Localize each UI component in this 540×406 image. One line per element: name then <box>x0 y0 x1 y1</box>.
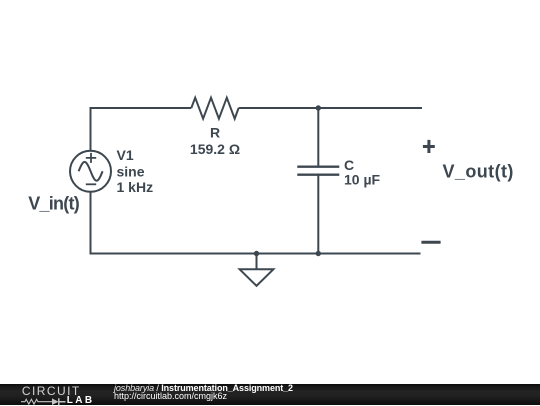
label V1 type sine <box>117 163 145 179</box>
label V_out(t) net name <box>443 161 514 181</box>
output plus terminal mark <box>423 140 435 153</box>
svg-text:V_in(t): V_in(t) <box>28 193 80 213</box>
label V_in(t) net name <box>28 193 80 213</box>
wire top rail left segment (V1 to R) <box>90 107 192 109</box>
wire capacitor C bottom lead <box>317 176 319 254</box>
wire bottom rail <box>90 253 421 255</box>
svg-text:159.2 Ω: 159.2 Ω <box>190 141 240 157</box>
svg-text:1 kHz: 1 kHz <box>117 179 154 195</box>
svg-text:R: R <box>210 124 220 140</box>
output minus terminal mark <box>421 241 440 244</box>
ground symbol triangle <box>240 269 274 286</box>
CircuitLab logo wordmark LAB <box>67 396 95 405</box>
wire top rail right segment (R to output +) <box>239 107 422 109</box>
wire V1 minus terminal to bottom rail <box>90 192 92 254</box>
label R value 159.2 ohm <box>190 141 240 157</box>
label C value 10 uF <box>344 172 381 188</box>
node junction dot top rail / C <box>316 105 321 110</box>
node junction dot ground <box>254 251 259 256</box>
voltage source V1 minus mark <box>86 183 96 185</box>
label R designator <box>210 124 220 140</box>
footer url line <box>114 392 227 401</box>
svg-text:C: C <box>344 157 354 173</box>
ground stub wire <box>256 254 258 270</box>
label V1 designator <box>117 147 134 163</box>
node junction dot bottom rail / C <box>316 251 321 256</box>
label C designator <box>344 157 354 173</box>
wire capacitor C top lead <box>317 108 319 166</box>
capacitor C top plate <box>297 166 339 168</box>
label V1 frequency 1 kHz <box>117 179 154 195</box>
svg-text:V_out(t): V_out(t) <box>443 161 514 181</box>
CircuitLab logo wordmark CIRCUIT <box>22 386 81 397</box>
voltage source V1 circle <box>70 151 111 192</box>
voltage source V1 plus mark <box>86 153 96 163</box>
voltage source V1 sine wave <box>79 162 103 181</box>
capacitor C bottom plate <box>297 174 339 176</box>
wire V1 plus terminal to top rail <box>90 109 92 151</box>
svg-text:sine: sine <box>117 163 145 179</box>
footer attribution bar <box>0 384 540 405</box>
CircuitLab logo symbol resistor-diode <box>21 397 66 406</box>
footer author and title line <box>114 384 293 393</box>
resistor R zigzag body <box>191 98 238 119</box>
svg-text:10 µF: 10 µF <box>344 172 381 188</box>
svg-text:V1: V1 <box>117 147 134 163</box>
